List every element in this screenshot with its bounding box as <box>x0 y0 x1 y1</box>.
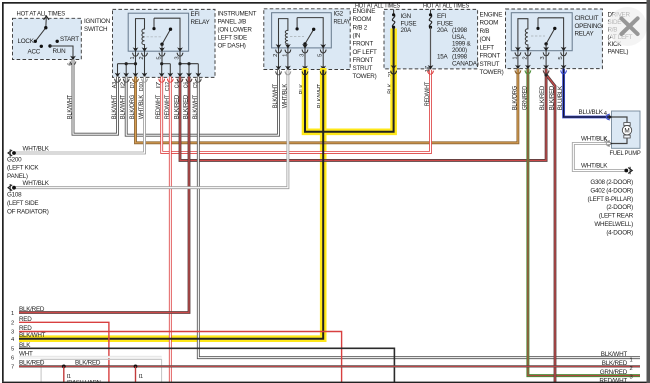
pin 5 label (CO relay) <box>558 57 564 60</box>
sidebar bar right <box>647 0 650 383</box>
svg-text:(IN: (IN <box>353 33 361 40</box>
wire BLK/RED J/B C6 to row1 <box>19 77 189 313</box>
wire RED/WHT J/B I7 to EFI fuse <box>162 70 431 153</box>
inline connectors below circuit opening relay <box>515 52 566 55</box>
wire BLK/WHT IG2 relay pin5 to row4 (highlight band) <box>19 68 323 339</box>
svg-text:G308 (2-DOOR): G308 (2-DOOR) <box>590 179 633 186</box>
fuel pump entry arrows <box>608 114 613 146</box>
pin 1 label (IG2 relay) <box>282 54 288 57</box>
svg-text:G108: G108 <box>7 192 22 199</box>
svg-text:OF RADIATOR): OF RADIATOR) <box>7 208 49 215</box>
wire label RED/WHT (I7) <box>155 95 162 120</box>
label HOT AT ALL TIMES (IGN fuse) <box>355 2 400 9</box>
ignition switch internals S1 <box>18 16 80 56</box>
label BLU/BLK (fuel pump feed) <box>579 109 608 117</box>
svg-text:(4-DOOR): (4-DOOR) <box>606 229 633 236</box>
junction dot CO pin3 branch <box>544 73 547 76</box>
IG2 relay fixed contact <box>296 18 324 48</box>
wire label RED/WHT (C12) <box>164 95 171 120</box>
connector pin label C5 <box>193 82 199 88</box>
pin 6 label (ignition) <box>68 63 74 66</box>
svg-text:FRONT: FRONT <box>353 57 374 64</box>
fuse IGN 20A <box>392 9 416 33</box>
fuel pump motor M <box>622 123 631 138</box>
node G200 text <box>7 156 39 180</box>
junction dot pin3/C4 bus <box>178 62 181 65</box>
svg-text:WHT: WHT <box>19 351 33 358</box>
engine room R/B dashed box <box>384 9 478 69</box>
svg-text:BLK/RED: BLK/RED <box>19 360 45 367</box>
connector pin label D10 <box>139 82 145 91</box>
svg-text:STRUT: STRUT <box>480 61 500 68</box>
fuel pump internal wiring <box>612 117 628 144</box>
wire BLK/RED row1 label <box>11 306 45 317</box>
pin 1 label (EFI relay) <box>130 57 136 60</box>
connector pin label I2 <box>121 82 127 88</box>
wire IGN fuse to box exit (black core over highlight) <box>393 29 395 69</box>
driver side R/B dashed box <box>506 9 603 69</box>
junction dot C6 bus <box>187 62 190 65</box>
wire drop to connector I1 a <box>63 366 65 383</box>
svg-text:RELAY: RELAY <box>575 31 595 38</box>
junction dot pin1/D7 bus <box>134 62 137 65</box>
circuit opening relay coil <box>518 19 528 51</box>
wire label BLK/RED (C6) <box>183 94 190 119</box>
EFI relay movable arm <box>160 28 172 52</box>
EFI relay K1 box <box>128 13 188 51</box>
svg-text:LEFT: LEFT <box>480 44 495 51</box>
wire label WHT/BLK (D10) <box>138 94 145 119</box>
IG2 relay mechanical link <box>290 36 304 38</box>
wire BLU/BLK CO relay pin5 to fuel pump <box>564 69 611 117</box>
node G308/G402 text <box>588 179 634 236</box>
ground G308 symbol <box>624 167 632 174</box>
svg-text:LEFT SIDE: LEFT SIDE <box>218 35 248 42</box>
wire label BLK/WHT (IG2 pin5) <box>317 84 324 109</box>
IG2 relay K2 box <box>272 13 332 48</box>
inline connectors at fuel pump <box>606 114 609 146</box>
wire label RED/WHT (EFI fuse) <box>424 82 431 107</box>
J/B exit inline connectors <box>115 79 202 82</box>
EFI relay coil <box>136 19 145 52</box>
label WHT/BLK (G200) <box>23 145 50 152</box>
label CIRCUIT OPENING RELAY <box>575 15 603 38</box>
svg-text:TOWER): TOWER) <box>480 69 504 76</box>
wire WHT/BLK fuel pump return to ground G308 <box>573 144 625 171</box>
pin 5 label (IG2 relay) <box>318 54 324 57</box>
svg-text:6: 6 <box>11 355 14 361</box>
wire label BLK/WHT (I2) <box>120 95 127 120</box>
wire BLK/WHT row4 label (highlighted) <box>11 332 46 343</box>
fuse box exit arrows redraw <box>391 65 397 74</box>
svg-text:BLK/WHT: BLK/WHT <box>601 351 628 358</box>
ground G108 symbol <box>8 184 16 191</box>
junction dot pin5/I7 bus <box>160 62 163 65</box>
inline connectors below EFI relay <box>133 53 183 56</box>
circuit opening relay pin arrows <box>515 47 566 52</box>
wire BLK/ORG J/B D7 to circuit opening relay pin1 <box>136 69 518 143</box>
wire BLK row5 to bottom edge <box>19 348 394 383</box>
wire RED row2 to bottom edge <box>19 322 109 383</box>
fuse box exit arrows <box>391 65 434 70</box>
svg-text:OPENING: OPENING <box>575 23 603 30</box>
svg-text:WHT/BLK: WHT/BLK <box>23 180 50 187</box>
svg-text:G200: G200 <box>7 156 22 163</box>
svg-text:OF DASH): OF DASH) <box>218 43 246 50</box>
svg-text:(ON LOWER: (ON LOWER <box>218 27 253 34</box>
CO box exit arrows <box>515 65 566 70</box>
wire WHT/BLK J/B D10 to ground G200 <box>16 77 145 154</box>
svg-text:PANEL): PANEL) <box>608 49 629 56</box>
connector I1 b text <box>139 374 143 380</box>
wire label BLK/ORG (CO pin1) <box>511 86 518 111</box>
pin 5 label (EFI relay) <box>157 57 163 60</box>
svg-text:RED: RED <box>19 325 32 332</box>
pin 3 label (CO relay) <box>540 57 546 60</box>
connector pin label C4 <box>175 81 181 88</box>
svg-text:EFI: EFI <box>191 11 201 18</box>
pin 1 label (CO relay) <box>512 57 518 60</box>
IG2 relay pin arrows <box>276 44 327 49</box>
svg-text:PANEL J/B: PANEL J/B <box>218 19 247 26</box>
pin 21 label (IGN fuse) <box>388 71 394 77</box>
svg-text:G402 (4-DOOR): G402 (4-DOOR) <box>590 187 633 194</box>
wire label BLK/RED 2 (bottom right) <box>602 360 633 372</box>
IG2 relay movable arm <box>303 28 315 48</box>
connector I1 a text <box>67 374 103 383</box>
junction dot row7 splice I1 a <box>62 365 66 369</box>
svg-text:IGN: IGN <box>401 13 412 20</box>
svg-text:BLK/WHT: BLK/WHT <box>19 332 46 339</box>
wire label BLK (IG2 pin3) <box>299 83 306 94</box>
svg-text:I1: I1 <box>139 374 143 380</box>
svg-text:(2-DOOR): (2-DOOR) <box>606 204 633 211</box>
svg-text:BLK/RED: BLK/RED <box>602 360 628 367</box>
label ENGINE ROOM R/B <box>480 11 504 76</box>
circuit opening relay fixed contact <box>536 18 563 51</box>
wire label BLK/WHT (IG2 pin2) <box>272 84 279 109</box>
inline connectors below IG2 relay <box>276 50 327 53</box>
wire label BLK (IGN fuse) <box>387 83 394 94</box>
svg-text:RUN: RUN <box>53 48 67 55</box>
label INSTRUMENT PANEL J/B <box>218 11 257 50</box>
pin 2 label (EFI relay) <box>139 57 145 60</box>
wire BLK/WHT J/B I2 to IG2 relay pin2 <box>126 70 278 136</box>
svg-text:CANADA): CANADA) <box>452 61 479 68</box>
fuse exit inline connectors <box>391 71 434 74</box>
svg-text:TOWER): TOWER) <box>353 73 377 80</box>
circuit opening relay mechanical link <box>531 35 545 37</box>
svg-text:(LEFT SIDE: (LEFT SIDE <box>7 200 38 207</box>
wire GRN/RED CO relay pin2 to bottom right (GRN/RED 3) <box>528 69 640 376</box>
EFI relay fixed contact <box>152 18 180 51</box>
label IG2 RELAY <box>334 11 351 26</box>
svg-text:RED: RED <box>19 316 32 323</box>
wire drop to connector I1 b <box>135 366 137 383</box>
pin 17 label (EFI fuse) <box>425 66 431 72</box>
wire BLK/RED CO relay pin3 branch to bottom edge (BLK/RED) <box>546 75 555 383</box>
wire label BLK/RED (C4) <box>174 94 181 119</box>
svg-text:(1998: (1998 <box>452 27 468 34</box>
svg-text:R/B: R/B <box>480 28 490 35</box>
wire label BLK/WHT (A3) <box>111 95 118 120</box>
EFI relay mechanical link <box>147 36 162 38</box>
label DRIVER SIDE R/B <box>608 11 633 55</box>
label WHT/BLK (pump pin5) <box>581 136 608 144</box>
svg-text:IGNITION: IGNITION <box>84 18 111 25</box>
svg-text:FUEL PUMP: FUEL PUMP <box>610 150 641 157</box>
svg-text:RELAY: RELAY <box>334 19 351 26</box>
wire BLK/WHT J/B C5 to bottom right (BLK/WHT 1) <box>198 77 640 358</box>
wire label BLK/RED (row7 right of splice) <box>75 360 101 367</box>
svg-text:1: 1 <box>630 358 633 364</box>
svg-text:EFI: EFI <box>437 13 447 20</box>
svg-text:3: 3 <box>540 57 546 60</box>
wire BLK/RED row7 to bottom right (BLK/RED 2) <box>19 365 640 367</box>
wire EFI fuse to box exit <box>430 27 432 69</box>
svg-text:IG2: IG2 <box>334 11 344 18</box>
circuit opening relay movable arm <box>544 27 556 51</box>
wire label BLK/WHT 1 (bottom right) <box>601 351 633 363</box>
wire label GRN/RED (CO pin2) <box>521 85 528 110</box>
wire RED row3 to bottom edge <box>19 332 342 383</box>
svg-text:INSTRUMENT: INSTRUMENT <box>218 11 257 18</box>
svg-text:BLU/BLK: BLU/BLK <box>579 109 604 116</box>
svg-text:LOCK: LOCK <box>18 38 35 45</box>
svg-text:I1: I1 <box>67 374 71 380</box>
svg-text:2: 2 <box>11 321 14 327</box>
fuse EFI 20A/15A <box>429 9 479 67</box>
connector pin label C6 <box>184 82 190 88</box>
ignition switch dashed box <box>13 18 82 59</box>
wire WHT row6 <box>19 356 162 358</box>
wire BLK IGN-fuse to IG2 relay pin3 (highlight band) <box>19 29 394 339</box>
svg-text:ROOM: ROOM <box>480 20 499 27</box>
label EFI RELAY <box>191 11 211 26</box>
wire label BLK/ORG (D7) <box>129 95 136 120</box>
frame border bottom <box>2 382 650 383</box>
engine room R/B 2 dashed box <box>264 9 350 70</box>
wire BLK/WHT IG2 relay pin5 to row4 (black core on highlight) <box>19 70 323 339</box>
svg-text:3: 3 <box>630 375 633 381</box>
svg-text:(LEFT B-PILLAR): (LEFT B-PILLAR) <box>588 196 634 203</box>
svg-text:20A: 20A <box>401 27 413 34</box>
EFI relay pin arrows at relay box bottom <box>133 47 183 52</box>
fuel pump box <box>612 111 641 148</box>
svg-text:BLK: BLK <box>19 342 31 349</box>
wire label BLU/BLK (CO pin5) <box>557 85 564 110</box>
pin 3 label (IG2 relay) <box>300 54 306 57</box>
label WHT/BLK (G108) <box>23 180 50 187</box>
svg-text:WHT/BLK: WHT/BLK <box>23 145 50 152</box>
IG2 relay internal pin wires <box>279 48 324 70</box>
node G108 text <box>7 192 49 216</box>
J/B exit arrows <box>115 73 202 78</box>
svg-text:OF LEFT: OF LEFT <box>353 49 378 56</box>
wire ignition RUN contact to box exit <box>50 46 73 60</box>
svg-text:5: 5 <box>11 347 14 353</box>
label ENGINE ROOM R/B 2 <box>353 8 378 80</box>
junction dot I2 bus <box>125 62 128 65</box>
close button X <box>608 7 647 46</box>
svg-text:ACC: ACC <box>28 49 41 56</box>
IG2 box exit arrows <box>276 66 327 71</box>
inline connector symbols redrawn on top <box>133 53 183 56</box>
svg-text:2: 2 <box>630 366 633 372</box>
connector arrow at ignition box exit <box>70 56 76 61</box>
J/B internal bus wires <box>118 51 199 76</box>
wire label WHT/BLK (IG2 pin1) <box>281 83 288 108</box>
label HOT AT ALL TIMES (ignition) <box>17 10 66 17</box>
svg-text:ROOM: ROOM <box>353 16 372 23</box>
svg-text:7: 7 <box>11 365 14 371</box>
svg-text:(LEFT REAR: (LEFT REAR <box>599 213 634 220</box>
svg-text:WHT/BLK: WHT/BLK <box>581 163 608 170</box>
IG2 exit inline connectors <box>276 71 327 74</box>
label WHT/BLK (to G308) <box>581 163 608 170</box>
svg-text:R/B 2: R/B 2 <box>353 24 368 31</box>
svg-text:(ON: (ON <box>480 36 491 43</box>
svg-text:20A: 20A <box>437 27 449 34</box>
frame border top <box>2 2 647 4</box>
svg-text:CIRCUIT: CIRCUIT <box>575 15 599 22</box>
wire label BLK/RED (CO pin3 branch) <box>549 85 556 110</box>
ground G200 symbol <box>8 149 16 156</box>
inline connector on ignition wire <box>70 61 76 64</box>
wire BLK IGN fuse core redraw (over band) <box>393 29 395 69</box>
label FUEL PUMP <box>610 150 641 157</box>
svg-text:(LEFT KICK: (LEFT KICK <box>7 165 39 172</box>
wire BLK/RED J/B C4 to circuit opening relay pin3 <box>180 69 546 161</box>
svg-text:FRONT: FRONT <box>480 53 501 60</box>
svg-text:WHEELWELL): WHEELWELL) <box>594 221 633 228</box>
svg-text:BLK/RED: BLK/RED <box>19 306 45 313</box>
label IGNITION SWITCH <box>84 18 111 33</box>
svg-text:STRUT: STRUT <box>353 65 373 72</box>
wire WHT/BLK IG2 relay pin1 to ground G108 <box>16 70 288 188</box>
instrument panel J/B dashed box <box>113 9 216 77</box>
label HOT AT ALL TIMES (EFI fuse) <box>423 2 469 9</box>
connector pin label I7 <box>156 82 162 88</box>
svg-text:HOT AT ALL TIMES: HOT AT ALL TIMES <box>17 10 66 17</box>
connector pin label C12 <box>165 82 171 91</box>
connector pin label D7 <box>130 82 136 88</box>
svg-text:15A: 15A <box>437 54 449 61</box>
svg-text:FRONT: FRONT <box>353 41 374 48</box>
svg-text:(1998: (1998 <box>452 54 468 61</box>
svg-text:BLK/RED: BLK/RED <box>75 360 101 367</box>
wire label GRN/RED 3 (bottom right) <box>600 369 633 381</box>
svg-text:RELAY: RELAY <box>191 19 211 26</box>
connector pin label A3 <box>112 82 118 88</box>
IG2 relay coil <box>279 19 288 48</box>
wire label RED/WHT 4 (bottom right) <box>599 378 627 383</box>
wire label BLK/RED (CO pin3) <box>539 85 546 110</box>
svg-text:3: 3 <box>11 330 14 336</box>
svg-text:START: START <box>60 36 79 43</box>
svg-text:GRN/RED: GRN/RED <box>600 369 628 376</box>
wire label BLK/WHT (ignition) <box>67 95 74 120</box>
wire BLK/WHT ignition RUN to J/B A3 <box>73 60 118 135</box>
CO relay internal pin wires <box>518 51 564 69</box>
wire label BLK/WHT (C5) <box>192 95 199 120</box>
CO exit inline connectors <box>515 70 566 73</box>
connector I1 grouping box <box>41 359 162 383</box>
wire BLK IG2 relay pin3 to IGN fuse (black core on highlight) <box>305 69 394 132</box>
circuit opening relay K3 box <box>511 13 572 51</box>
svg-text:M: M <box>624 128 629 135</box>
pin 3 label (EFI relay) <box>175 57 181 60</box>
svg-text:ENGINE: ENGINE <box>480 11 503 18</box>
wire RED/WHT J/B C12 down off-page <box>169 77 172 383</box>
pin 2 label (CO relay) <box>522 57 528 60</box>
frame border left <box>2 2 4 382</box>
svg-text:PANEL): PANEL) <box>7 173 28 180</box>
pin 2 label (IG2 relay) <box>273 54 279 57</box>
svg-text:SWITCH: SWITCH <box>84 26 108 33</box>
svg-text:1: 1 <box>11 311 14 317</box>
junction dot row7 splice I1 b <box>134 365 138 369</box>
